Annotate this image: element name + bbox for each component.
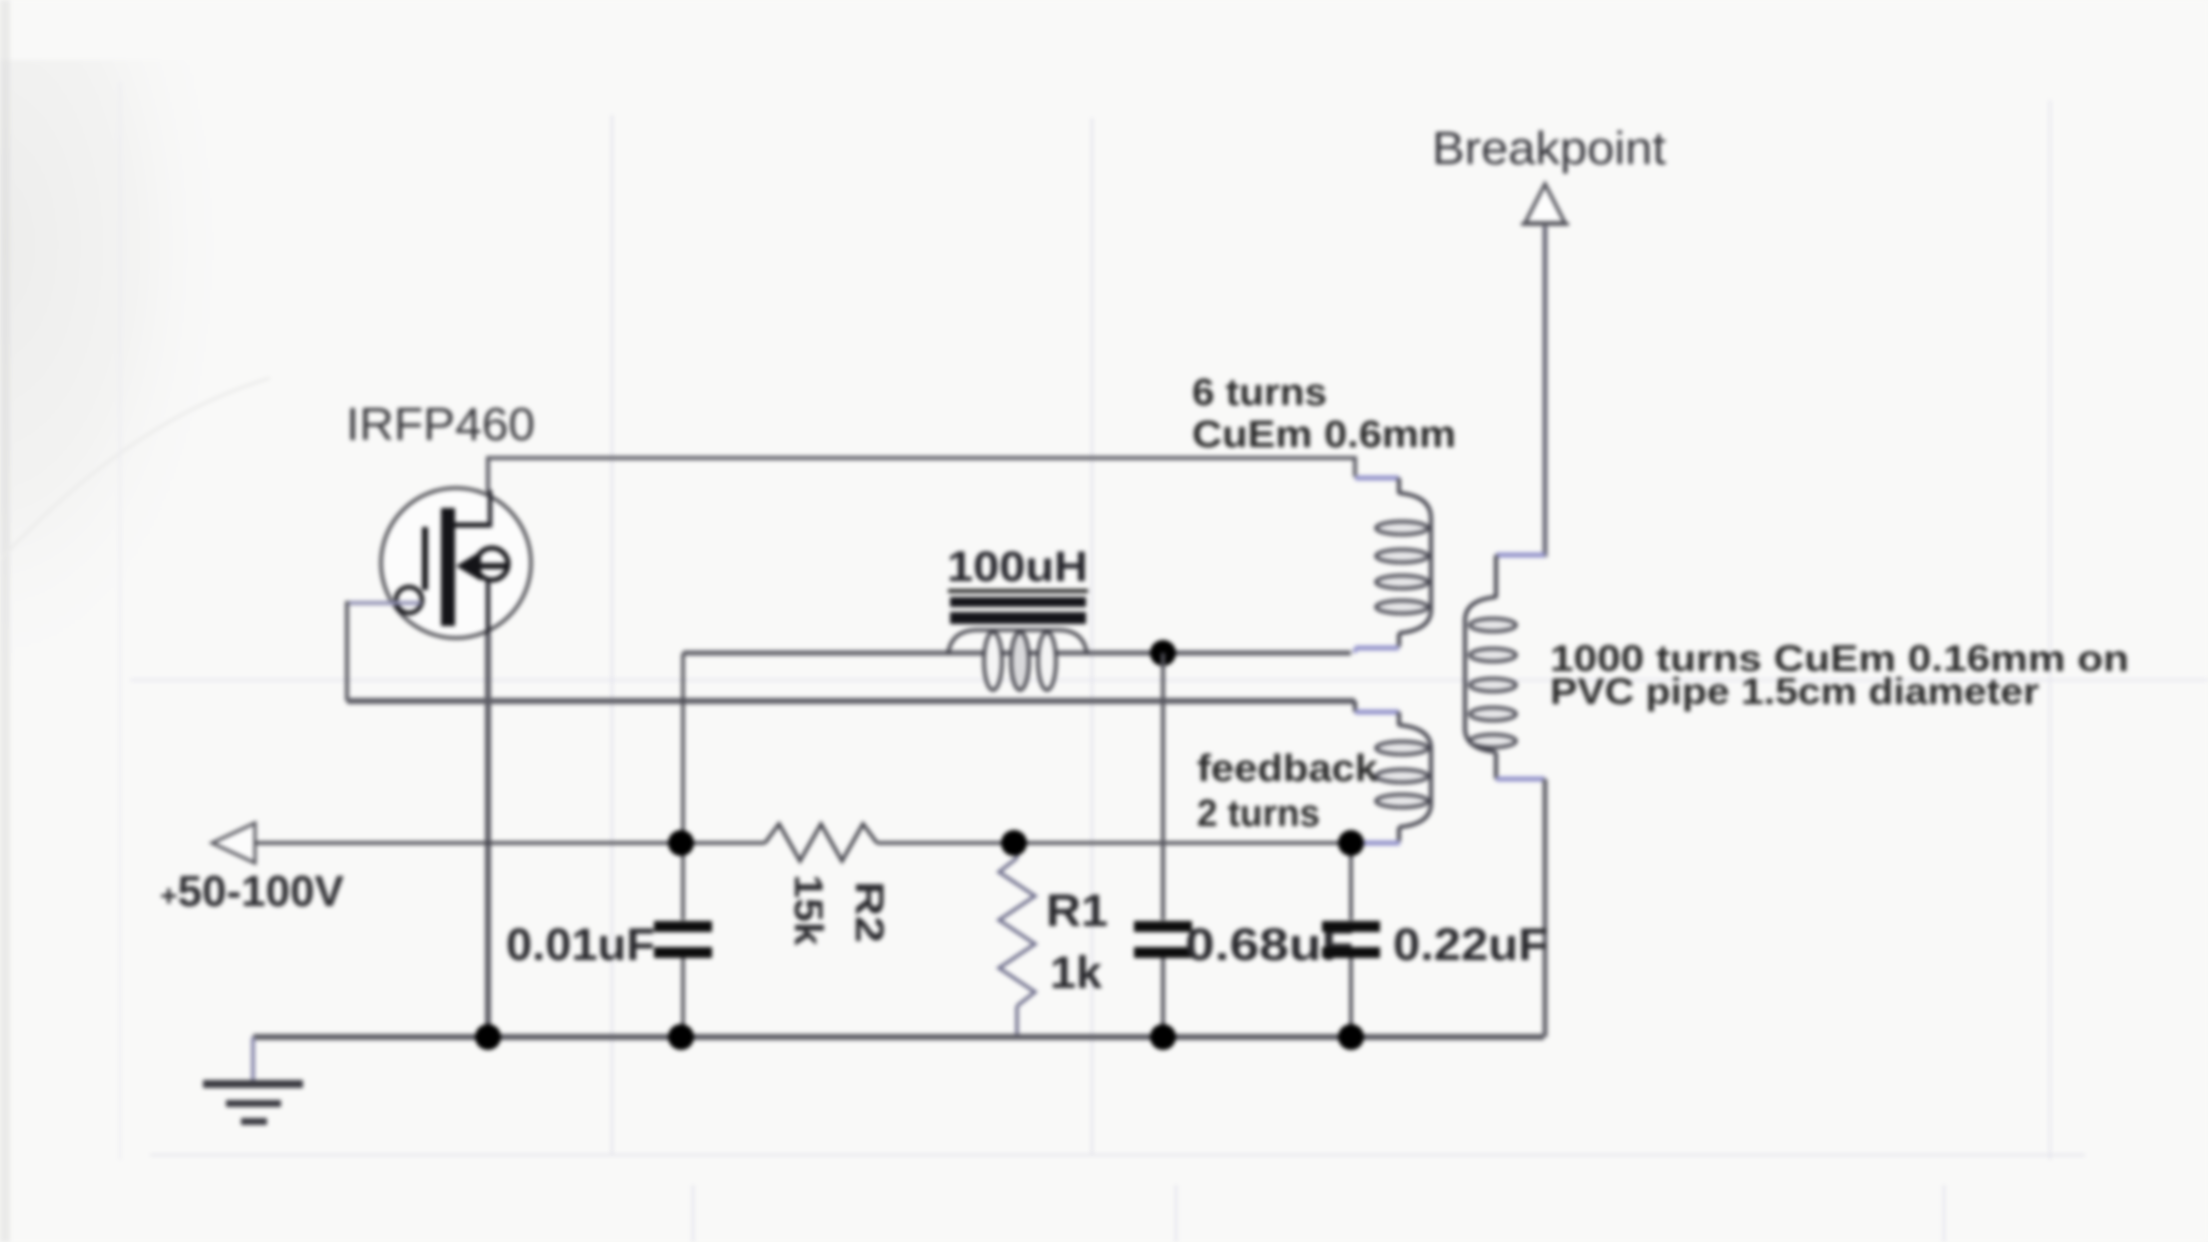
wire gate: [347, 601, 421, 605]
transformer T1 feedback winding: [1353, 701, 1431, 843]
svg-text:6 turns: 6 turns: [1192, 372, 1327, 414]
svg-text:+50-100V: +50-100V: [160, 867, 345, 916]
junction supply-feedback: [1338, 830, 1364, 856]
svg-text:R1: R1: [1046, 885, 1108, 936]
capacitor C2 0.68uF: [1134, 921, 1192, 958]
wire mid row to primary: [683, 651, 1351, 656]
inductor L1 winding: [948, 630, 1087, 690]
wire 0.68uF branch upper: [1161, 653, 1165, 920]
svg-text:100uH: 100uH: [947, 543, 1088, 591]
svg-text:2 turns: 2 turns: [1197, 793, 1320, 835]
wire left cap branch lower: [681, 958, 685, 1037]
junction ground-C1: [668, 1024, 694, 1050]
wire ground stub: [251, 1037, 255, 1080]
transistor Q1 IRFP460: [381, 488, 531, 638]
svg-text:R2: R2: [847, 881, 891, 943]
wire secondary top: [1543, 226, 1548, 557]
wire secondary bottom: [1543, 779, 1548, 1037]
transformer T1 secondary winding: [1465, 555, 1545, 779]
ground: [203, 1080, 303, 1125]
wire feedback row: [347, 698, 1355, 704]
junction ground-source: [475, 1024, 501, 1050]
wire source down: [485, 634, 491, 1037]
wire 0.68uF branch lower: [1161, 958, 1165, 1037]
wire left cap branch: [681, 653, 685, 920]
inductor L1 core: [948, 591, 1088, 624]
wire 0.22uF branch upper: [1349, 843, 1353, 920]
wire ground rail: [253, 1034, 1544, 1040]
svg-text:feedback: feedback: [1197, 748, 1379, 790]
junction ground-C3: [1338, 1024, 1364, 1050]
junction mid-primary node: [1150, 640, 1176, 666]
power port +50-100V arrow: [212, 823, 255, 863]
wire drain top: [488, 458, 1355, 492]
svg-text:PVC pipe 1.5cm diameter: PVC pipe 1.5cm diameter: [1550, 671, 2039, 712]
wire gate vertical: [345, 601, 349, 701]
transformer T1 primary winding: [1355, 478, 1431, 653]
junction supply-R1: [1001, 830, 1027, 856]
wire supply rail right: [877, 841, 1351, 845]
capacitor C3 0.22uF: [1322, 921, 1380, 958]
port Breakpoint arrow: [1525, 184, 1565, 223]
svg-text:1k: 1k: [1050, 947, 1103, 998]
junction supply-C1: [668, 830, 694, 856]
junction ground-C2: [1150, 1024, 1176, 1050]
wire supply rail left: [255, 841, 765, 845]
svg-text:0.01uF: 0.01uF: [506, 919, 655, 970]
wire 0.22uF branch lower: [1349, 958, 1353, 1037]
svg-text:15k: 15k: [786, 875, 830, 947]
svg-text:CuEm 0.6mm: CuEm 0.6mm: [1192, 414, 1456, 456]
svg-text:0.22uF: 0.22uF: [1393, 919, 1548, 970]
resistor R2: [765, 824, 877, 861]
svg-text:IRFP460: IRFP460: [346, 398, 535, 450]
svg-text:Breakpoint: Breakpoint: [1432, 122, 1666, 174]
resistor R1: [999, 843, 1035, 1037]
capacitor C1 0.01uF: [654, 921, 712, 958]
